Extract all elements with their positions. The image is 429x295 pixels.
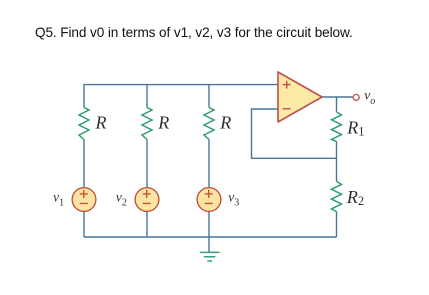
wire branch v2 middle bbox=[146, 140, 148, 188]
svg-text:v2: v2 bbox=[116, 189, 127, 208]
wire feedback from inverting input to R1-R2 node bbox=[252, 109, 337, 158]
svg-text:R1: R1 bbox=[346, 117, 364, 138]
svg-text:vo: vo bbox=[364, 87, 375, 107]
op-amp inverting input marker bbox=[283, 108, 291, 110]
wire R2 bottom to rail bbox=[336, 212, 338, 238]
source v1 polarity bbox=[80, 190, 88, 204]
resistor R (v2 branch) bbox=[142, 108, 152, 140]
wire branch v2 upper bbox=[146, 84, 148, 108]
wire bottom rail bbox=[84, 236, 337, 238]
wire R1 bottom to R2 top bbox=[336, 142, 338, 182]
resistor R (v1 branch) bbox=[79, 108, 89, 140]
source v2 body bbox=[135, 188, 159, 212]
resistor R1 bbox=[332, 112, 342, 142]
wire branch v1 lower bbox=[83, 211, 85, 237]
op-amp U1 body bbox=[278, 72, 322, 122]
source v2 polarity bbox=[143, 190, 151, 204]
wire branch v3 upper bbox=[208, 84, 210, 108]
svg-text:R: R bbox=[157, 113, 169, 133]
wire op-amp output to terminal bbox=[322, 96, 353, 98]
resistor R2 bbox=[332, 182, 342, 212]
svg-text:v3: v3 bbox=[228, 189, 239, 208]
svg-text:R2: R2 bbox=[346, 187, 364, 208]
wire branch v1 upper bbox=[83, 84, 85, 108]
title text bbox=[35, 25, 353, 40]
wire branch v1 middle bbox=[83, 140, 85, 188]
source v3 polarity bbox=[205, 190, 213, 204]
source v3 body bbox=[197, 188, 221, 212]
op-amp noninverting input marker bbox=[283, 81, 291, 89]
svg-text:R: R bbox=[95, 113, 107, 133]
source v1 body bbox=[72, 188, 96, 212]
wire ground stub bbox=[208, 237, 210, 252]
svg-text:R: R bbox=[219, 113, 231, 133]
wire top rail to op-amp noninverting input bbox=[84, 84, 278, 86]
wire output node to R1 top bbox=[336, 97, 338, 112]
svg-text:v1: v1 bbox=[53, 189, 64, 208]
wire branch v3 middle bbox=[208, 140, 210, 188]
wire branch v3 lower bbox=[208, 211, 210, 237]
wire branch v2 lower bbox=[146, 211, 148, 237]
output terminal node vo bbox=[353, 94, 359, 100]
ground bbox=[200, 252, 220, 261]
resistor R (v3 branch) bbox=[204, 108, 214, 140]
